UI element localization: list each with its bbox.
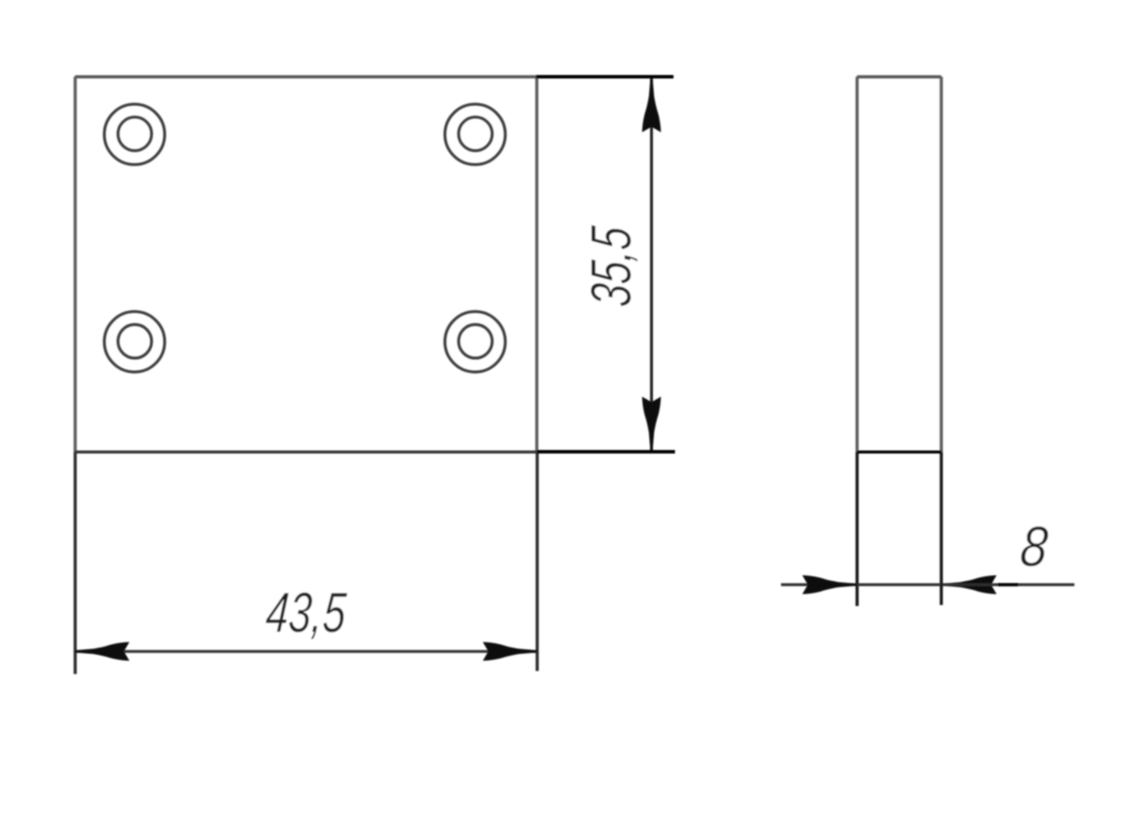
svg-text:8: 8 (1018, 515, 1051, 578)
hole bottom-left inner circle (118, 325, 152, 359)
front view: step line (75, 450, 537, 453)
hole top-left outer circle (104, 104, 164, 164)
hole bottom-right outer circle (445, 312, 505, 372)
front view: plate right edge (lower) (536, 452, 539, 671)
side view: step line (857, 450, 941, 453)
dim 8: right tail line (943, 583, 1075, 586)
dim 8: right arrowhead pointing left (943, 575, 997, 594)
front view: plate left edge (upper) (74, 77, 77, 452)
dim 8: connecting line between edges (857, 583, 941, 586)
dim 8: dark stub on right tail (998, 583, 1018, 586)
dim 8: left arrowhead pointing right (802, 575, 856, 594)
hole top-left inner circle (118, 117, 152, 151)
front view: plate top edge (75, 75, 537, 78)
dim 43,5: right arrowhead (483, 642, 537, 661)
front view: plate right edge (upper) (535, 77, 538, 452)
hole top-right outer circle (445, 104, 505, 164)
side view: left edge (upper) (856, 77, 859, 452)
side view: left edge (lower) (856, 452, 859, 606)
dim 35,5: vertical dimension line (650, 79, 653, 450)
hole bottom-right inner circle (459, 325, 493, 359)
dim 35,5: bottom extension line (537, 450, 675, 454)
dim 43,5: dimension line (76, 650, 536, 653)
hole bottom-left outer circle (104, 312, 164, 372)
dim 35,5: top arrowhead (642, 78, 661, 132)
side view: right edge (lower) (940, 452, 943, 605)
svg-text:43,5: 43,5 (264, 580, 349, 644)
front view: plate left edge (lower) (74, 452, 77, 674)
svg-text:35,5: 35,5 (579, 224, 643, 309)
dim 35,5: bottom arrowhead (642, 397, 661, 451)
dim 35,5: top extension line (536, 75, 674, 79)
side view: top edge (857, 75, 941, 78)
hole top-right inner circle (459, 117, 493, 151)
dim 43,5: left arrowhead (75, 642, 129, 661)
dim 8: left tail line (781, 583, 856, 586)
side view: right edge (upper) (940, 77, 943, 452)
